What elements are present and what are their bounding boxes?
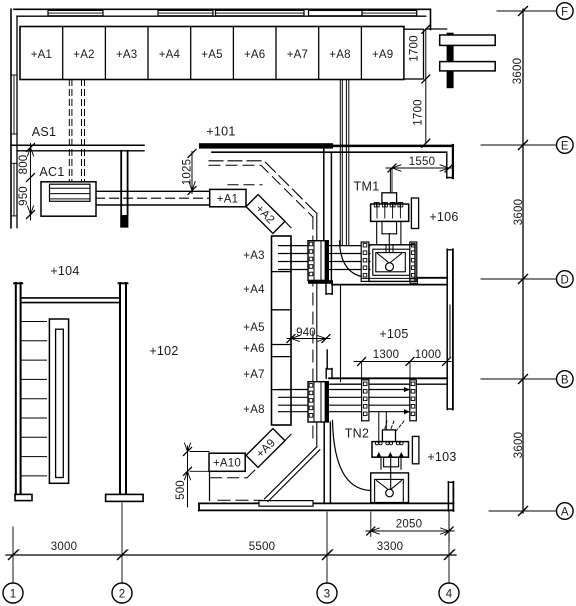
window in left wall lower — [11, 163, 17, 216]
TN2 left flange — [362, 380, 369, 421]
tray outer boundary vertical run — [316, 213, 318, 447]
wall penetration block TN2 — [308, 382, 328, 422]
dimension 1025 — [188, 150, 196, 195]
svg-text:+A4: +A4 — [243, 284, 265, 296]
wire: busbar AC1 to +A1 top line — [96, 190, 210, 192]
row D wall thick piece at corridor — [308, 280, 333, 284]
svg-text:1550: 1550 — [409, 156, 435, 168]
right wall stub below top wall (door jamb of +106) — [447, 145, 453, 178]
transformer TM1 top cap — [382, 193, 397, 204]
TN2 right flange — [410, 380, 417, 421]
grid circle 3 — [317, 583, 337, 603]
svg-text:+A3: +A3 — [116, 49, 137, 61]
window in top wall 4 — [362, 10, 417, 15]
TN2 pit circle — [386, 489, 394, 497]
window in top wall 3 — [216, 10, 305, 15]
stair top inner wall — [21, 298, 120, 303]
svg-text:+A6: +A6 — [244, 49, 265, 61]
stair rail outer — [49, 319, 68, 483]
wire: bus lines through wall to TN2 — [279, 390, 410, 412]
cabinet row +A1..+A9 outline — [20, 27, 404, 80]
row D wall tab downward — [326, 284, 332, 294]
wire: cable drop pair below +A2 cabinet (dashed) — [69, 80, 84, 182]
cabinet dividers — [63, 27, 362, 80]
svg-text:+106: +106 — [429, 210, 458, 224]
wire: cable curve into TM1 foundation — [340, 241, 370, 278]
grid row stub lines — [481, 11, 556, 511]
tray outer boundary bottom diagonal pair — [265, 447, 317, 499]
stair left wall — [14, 283, 22, 494]
row B wall tab upward — [326, 369, 332, 379]
corner link +A2 to column — [285, 221, 291, 227]
svg-text:+A7: +A7 — [287, 49, 308, 61]
TM1 radiator — [411, 198, 418, 229]
grid circle E — [557, 137, 574, 154]
stair right wall — [119, 283, 128, 494]
svg-text:+102: +102 — [149, 344, 178, 358]
cell 1700 — [404, 29, 424, 79]
wire: solid drops to TN2 — [378, 412, 380, 441]
grid circle A — [557, 503, 574, 520]
svg-text:+A1: +A1 — [31, 49, 52, 61]
top wall of +106 outer — [333, 145, 453, 148]
wire: vertical feed in room +105 down to TN2 — [340, 286, 342, 382]
TM1 foundation outer — [369, 245, 415, 282]
wall pier top right (between busbars) — [447, 33, 454, 88]
svg-text:3600: 3600 — [512, 58, 524, 84]
wall penetration block TM1 — [308, 241, 328, 281]
wall under AS1 room (row E left part) — [11, 144, 144, 146]
cabinet +A1 box — [210, 189, 246, 206]
corridor right wall lower segment — [324, 422, 330, 503]
tray inner dashed boundary vertical — [312, 217, 314, 442]
TM1 foundation foot tab — [410, 279, 418, 283]
top wall outer line — [14, 9, 431, 29]
dimension bottom main line — [6, 554, 456, 556]
wire: busbar AC1 to +A1 dashed centerline — [96, 197, 210, 199]
dimension 940 — [287, 330, 330, 343]
svg-text:+101: +101 — [206, 125, 235, 139]
TM1 foundation right flange — [410, 242, 417, 281]
svg-text:3300: 3300 — [377, 541, 403, 553]
svg-text:500: 500 — [175, 480, 187, 500]
svg-text:4: 4 — [446, 589, 453, 601]
TN2 radiator — [412, 436, 419, 463]
dimension 500 — [184, 443, 210, 507]
svg-text:+A8: +A8 — [243, 404, 264, 416]
tray outer boundary corridor run — [209, 161, 317, 214]
wire: dashed drops to TN2 — [385, 421, 405, 431]
svg-text:+103: +103 — [427, 450, 456, 464]
TN2 foundation inner — [375, 479, 404, 502]
stair rail inner — [56, 329, 64, 477]
corridor right wall upper segment — [324, 148, 332, 281]
TM1 foundation inner — [373, 249, 410, 275]
svg-text:F: F — [561, 6, 568, 18]
corner link +A9 to column — [285, 434, 291, 440]
svg-text:+A5: +A5 — [201, 49, 222, 61]
svg-text:B: B — [561, 374, 569, 386]
opening in top wall (plain box) — [309, 10, 363, 15]
grid circle 4 — [439, 583, 459, 603]
svg-text:1: 1 — [10, 589, 17, 601]
svg-text:2050: 2050 — [396, 519, 422, 531]
svg-text:+A7: +A7 — [243, 369, 264, 381]
window in top wall 2 — [158, 10, 213, 15]
tray outer dashed bottom — [218, 499, 262, 501]
TM1 bushing clips — [374, 203, 403, 207]
svg-text:+104: +104 — [50, 264, 79, 278]
svg-text:AC1: AC1 — [39, 165, 64, 179]
inner face line of +106 top wall — [212, 151, 447, 153]
stair right wall foot — [106, 494, 144, 501]
AC1 inner bus lines — [50, 188, 91, 199]
TM1 foundation inner 2 — [376, 253, 406, 272]
svg-text:1025: 1025 — [182, 159, 194, 185]
cabinet +A2 box (rotated) — [246, 195, 285, 234]
TM1 foundation bottom line — [361, 277, 417, 279]
svg-text:800: 800 — [18, 155, 30, 175]
svg-text:1000: 1000 — [415, 349, 441, 361]
cabinet AC1 outer box — [41, 182, 96, 216]
dimension bottom extension lines — [13, 503, 449, 583]
svg-text:D: D — [561, 274, 570, 286]
svg-text:AS1: AS1 — [32, 125, 57, 139]
TM1 internal leads — [377, 207, 400, 218]
svg-text:3: 3 — [324, 589, 331, 601]
corridor +101 top wall (row E) — [199, 143, 333, 148]
cabinet column +A3..+A8 — [272, 236, 292, 425]
TN2 bottom terminals — [376, 452, 404, 457]
transformer TN2 top cap — [382, 430, 395, 442]
grid circle D — [557, 271, 574, 288]
svg-text:3000: 3000 — [51, 541, 77, 553]
AC1 inner box — [50, 184, 91, 201]
arrowheads on TN2 bus — [404, 387, 410, 414]
dimension bottom ticks — [9, 551, 454, 560]
left wall inner line — [16, 16, 18, 228]
svg-text:+A3: +A3 — [243, 250, 264, 262]
TM1 lower neck — [377, 221, 401, 252]
dimension 1300 / 1000 — [354, 358, 451, 380]
grid circle F — [557, 3, 574, 20]
svg-text:+A9: +A9 — [372, 49, 393, 61]
TM1 pit circle — [386, 263, 394, 271]
right wall middle segment — [447, 249, 453, 409]
svg-text:+A2: +A2 — [73, 49, 94, 61]
transformer TN2 body — [372, 442, 409, 458]
transformer TM1 body — [371, 204, 409, 221]
window leaf in right wall — [449, 305, 451, 357]
wire: busbar AC1 to +A1 bottom line — [96, 204, 210, 206]
row B wall (divider +105 / +103 room) — [329, 377, 447, 379]
row D wall stub at right wall — [417, 277, 447, 279]
dimension right main line — [522, 9, 524, 513]
svg-text:E: E — [561, 140, 569, 152]
svg-text:+A6: +A6 — [243, 343, 264, 355]
left wall outer line — [10, 9, 12, 227]
leader line TM1 — [389, 169, 391, 193]
wall line from 1700 cell to pier — [426, 28, 447, 30]
grid circle 1 — [3, 583, 23, 603]
dimension 1550 — [386, 164, 453, 192]
svg-text:940: 940 — [296, 327, 316, 339]
TN2 foundation outer — [371, 473, 409, 503]
svg-text:3600: 3600 — [513, 199, 525, 225]
svg-text:+A5: +A5 — [243, 322, 264, 334]
svg-text:+105: +105 — [379, 327, 408, 341]
tray edge below +A10 — [209, 471, 211, 500]
cabinet +A10 box — [209, 453, 245, 471]
wire: cable drop pair below +A8 cabinet down to TM1 — [340, 80, 349, 246]
right wall bottom segment — [448, 482, 453, 511]
grid circle 2 — [112, 583, 132, 603]
duct inset in bottom wall — [259, 501, 313, 507]
tray inner dashed boundary bottom — [211, 477, 247, 479]
wire: bus lines through wall to TM1 — [279, 246, 370, 270]
row D wall from corridor to right wall — [332, 284, 447, 286]
svg-text:+A8: +A8 — [329, 49, 350, 61]
svg-text:950: 950 — [18, 186, 30, 206]
window in top wall 1 — [48, 10, 103, 15]
TN2 bushing clips — [375, 442, 403, 445]
TM1 foundation left flange — [361, 242, 369, 281]
cabinet +A9 box (rotated) — [246, 429, 285, 468]
grid circle B — [557, 371, 574, 388]
stair left wall foot — [15, 494, 32, 500]
busbar upper — [440, 35, 496, 45]
TM1 V leads to pit — [378, 245, 402, 263]
dimension 800 / 950 — [27, 144, 35, 221]
tray inner dashed boundary horizontal — [209, 165, 313, 217]
svg-text:3600: 3600 — [513, 432, 525, 458]
tray short dashed mark above +A1 — [228, 184, 262, 186]
corridor right wall short piece above row B — [326, 350, 328, 369]
svg-text:5500: 5500 — [249, 541, 275, 553]
dimension 1700 pair (right of cabinets) — [422, 25, 430, 147]
svg-text:TN2: TN2 — [345, 427, 370, 441]
svg-text:1700: 1700 — [409, 35, 421, 61]
svg-text:1300: 1300 — [373, 349, 399, 361]
TN2 V leads — [377, 481, 402, 491]
window in left wall upper — [11, 75, 17, 134]
dimension 2050 — [366, 512, 454, 542]
busbar lower — [440, 62, 496, 71]
svg-text:+A4: +A4 — [159, 49, 181, 61]
top wall inner line — [17, 15, 426, 17]
bottom wall (row A) — [199, 503, 453, 510]
svg-text:2: 2 — [119, 589, 126, 601]
svg-text:+A10: +A10 — [213, 458, 241, 470]
svg-text:+A1: +A1 — [217, 193, 238, 205]
svg-text:A: A — [561, 506, 569, 518]
svg-text:1700: 1700 — [413, 99, 425, 125]
dimension right ticks — [519, 7, 528, 516]
wire: cable curve into TN2 foundation — [333, 421, 371, 491]
stair steps — [21, 322, 47, 476]
TN2 lower neck — [381, 457, 401, 489]
svg-text:TM1: TM1 — [354, 180, 380, 194]
wall pier below AS1 wall — [121, 151, 127, 215]
